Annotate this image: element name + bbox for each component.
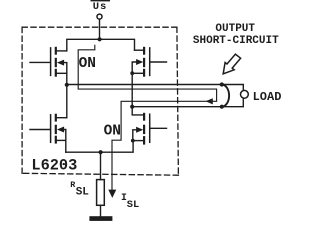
IC boundary dashed box L6203 (bottom edge): [22, 173, 178, 175]
svg-text:Us: Us: [93, 1, 107, 13]
IC boundary dashed box L6203 (right edge): [177, 27, 179, 175]
load circle: [241, 90, 249, 98]
IC boundary dashed box L6203 (top edge): [22, 26, 177, 28]
transistor Q3 (bottom-left DMOS): [30, 115, 66, 143]
transistor Q2 drain lead: [135, 49, 144, 51]
wire top rail: [67, 39, 135, 51]
IC boundary dashed box L6203 (left edge): [21, 27, 23, 173]
wire bottom sense rail: [66, 141, 133, 153]
transistor Q2 (top-right DMOS, mirrored): [132, 48, 166, 76]
transistor Q4 drain lead: [132, 107, 143, 115]
node short-circuit bottom: [220, 105, 224, 109]
dotted zero mark in L6203: [63, 163, 65, 165]
svg-text:SL: SL: [76, 187, 90, 199]
current path arrowhead I_SL: [108, 190, 116, 198]
svg-text:ON: ON: [79, 56, 96, 72]
svg-text:LOAD: LOAD: [253, 90, 282, 104]
current path I_SL: [78, 45, 216, 191]
wire sense node to resistor: [100, 152, 102, 179]
short-circuit arc across load: [222, 85, 229, 107]
wire Vs feed: [99, 19, 101, 39]
svg-text:SL: SL: [127, 199, 139, 211]
svg-text:OUTPUT: OUTPUT: [215, 23, 255, 35]
node OUT1: [65, 83, 69, 87]
wire resistor to ground: [100, 205, 102, 216]
node OUT2: [130, 105, 134, 109]
output short-circuit hollow arrow: [223, 54, 240, 74]
transistor Q3 drain lead: [57, 117, 67, 119]
svg-text:ON: ON: [104, 124, 121, 140]
node short-circuit top: [220, 82, 224, 86]
node Q2 body-source: [130, 71, 134, 75]
node Vs junction: [98, 37, 102, 41]
node sense: [99, 150, 103, 154]
transistor Q4 (bottom-right DMOS, ON): [133, 114, 167, 144]
terminal Vs: [97, 14, 102, 19]
wire OUT2 to load (lower): [132, 98, 243, 106]
transistor Q1 drain lead: [57, 50, 67, 52]
label Vs overbar: [91, 0, 111, 1]
wire Q1 source to OUT1: [66, 73, 68, 85]
current path arrowhead (return): [206, 98, 213, 104]
ground: [89, 216, 112, 221]
svg-text:SHORT-CIRCUIT: SHORT-CIRCUIT: [193, 35, 279, 47]
transistor Q1 (top-left DMOS, ON): [30, 48, 67, 76]
svg-text:L6203: L6203: [31, 157, 77, 175]
wire Q3 source to sense rail: [65, 140, 67, 152]
wire left column OUT1 to Q3 drain: [66, 85, 68, 118]
node Q4 body-source: [131, 139, 135, 143]
wire OUT1 to load (upper): [67, 85, 244, 91]
resistor R_SL: [97, 180, 105, 206]
wire right column Q2 source to OUT2: [131, 73, 133, 106]
